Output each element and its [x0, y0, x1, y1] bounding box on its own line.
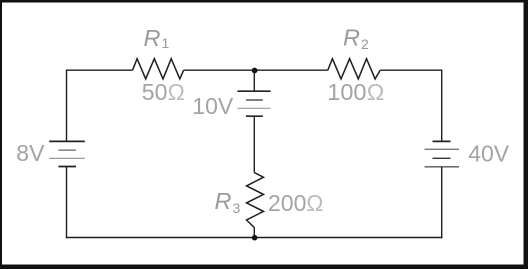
resistor R2 — [328, 59, 380, 79]
battery V2 10V — [238, 91, 271, 116]
resistor R3 — [247, 173, 264, 228]
svg-text:8V: 8V — [16, 140, 45, 166]
label 40V (value of battery V3) — [468, 140, 510, 166]
svg-text:Ω: Ω — [168, 79, 185, 105]
wire — [253, 116, 255, 172]
wire — [184, 69, 328, 71]
label R1 — [144, 25, 170, 51]
wire — [66, 237, 443, 239]
svg-text:R: R — [215, 188, 232, 214]
svg-text:1: 1 — [162, 35, 170, 51]
node B — [252, 235, 258, 241]
wire — [66, 167, 68, 239]
label 200Ω (value of R3) — [268, 190, 324, 216]
wire — [253, 228, 255, 238]
svg-text:40V: 40V — [468, 140, 510, 166]
label 50Ω (value of R1) — [142, 79, 185, 105]
label 10V (value of battery V2) — [192, 93, 234, 119]
svg-text:Ω: Ω — [306, 190, 323, 216]
battery V3 40V — [425, 141, 459, 166]
label 100Ω (value of R2) — [327, 79, 384, 105]
svg-text:2: 2 — [361, 36, 369, 52]
wire — [253, 70, 255, 91]
wire — [441, 70, 443, 142]
svg-text:R: R — [343, 25, 360, 51]
svg-text:50: 50 — [142, 79, 168, 105]
svg-text:10V: 10V — [192, 93, 234, 119]
wire — [441, 167, 443, 238]
node A — [252, 68, 258, 74]
svg-text:100: 100 — [327, 79, 366, 105]
wire — [67, 69, 133, 71]
resistor R1 — [133, 59, 184, 79]
svg-text:Ω: Ω — [367, 79, 385, 105]
label R3 — [215, 188, 241, 216]
battery V1 8V — [49, 141, 85, 166]
label 8V (value of battery V1) — [16, 140, 45, 166]
svg-text:3: 3 — [233, 200, 241, 216]
wire — [380, 69, 442, 71]
svg-text:R: R — [144, 25, 161, 51]
wire — [66, 70, 68, 142]
svg-text:200: 200 — [268, 190, 306, 216]
label R2 — [343, 25, 369, 53]
